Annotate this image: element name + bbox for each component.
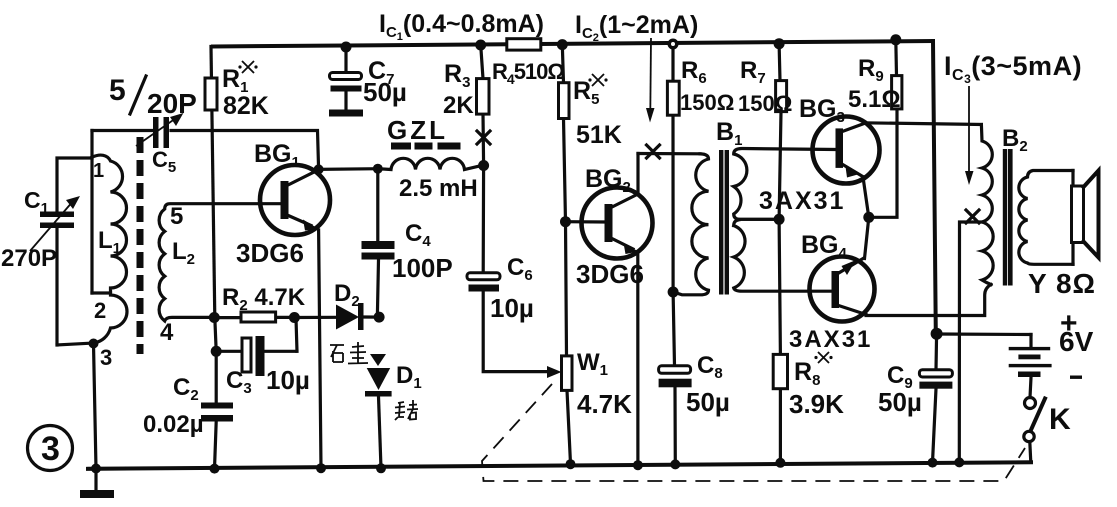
svg-text:0.02µ: 0.02µ [143,411,204,438]
resistor R4 [507,39,541,50]
dashed mechanical link W1-K [482,384,1025,481]
svg-text:10µ: 10µ [266,365,310,395]
svg-text:50µ: 50µ [363,77,407,107]
svg-text:3AX31: 3AX31 [759,187,845,215]
svg-text:20P: 20P [147,88,197,119]
switch K [1025,398,1036,409]
resistor R3 [481,45,484,165]
node R8 rail [775,458,785,468]
node R6 rail (ring) [668,39,679,50]
node BG1 emitter at rail [316,463,326,473]
capacitor C3 [216,319,297,352]
label marker 3 [28,426,73,471]
svg-text:3: 3 [41,430,60,468]
svg-text:1: 1 [93,160,104,182]
test point x on collector wire [647,145,660,158]
inductor L2 [159,204,281,321]
resistor R7 [779,44,781,220]
transistor BG2 [582,188,653,259]
adjust mark R8 [814,352,832,363]
wire C5 feedback line [92,131,319,170]
svg-text:K: K [1049,403,1071,436]
node C2 at rail [210,464,220,474]
current arrow IC3 [968,86,970,175]
svg-text:5.1Ω: 5.1Ω [848,86,901,113]
wire BG3 emitter down [863,177,869,217]
transformer B2 primary [981,125,993,285]
node BG2 emitter rail [633,460,643,470]
wire emitter node to R9 [869,109,897,217]
diode D1 [370,354,386,366]
svg-text:3AX31: 3AX31 [789,326,872,353]
wire tank to ground [94,344,97,469]
node R3 rail [475,40,486,51]
svg-text:150Ω: 150Ω [680,90,734,115]
wire battery feed [937,332,1031,336]
ground [94,469,97,492]
capacitor C2 [215,318,217,469]
resistor R6 [671,44,674,292]
svg-text:5: 5 [109,74,126,107]
wire left tank vertical [90,131,93,294]
node C8 rail [670,459,680,469]
node C7 rail [341,42,352,53]
node BG1 collector [314,164,324,174]
resistor R5 [562,45,565,222]
wire top supply rail [213,41,933,47]
node B1 primary bottom [668,287,679,298]
wiper arrow into W1 [547,366,562,378]
node C3 left [211,346,222,357]
adjust mark R5 [588,74,607,86]
transistor BG3 [813,117,880,184]
label silicon (hand-drawn) [330,342,368,364]
resistor R9 [894,40,898,76]
svg-text:3DG6: 3DG6 [236,238,304,268]
label germanium (hand-drawn) [395,400,418,420]
battery 6V [1030,335,1031,398]
svg-text:50µ: 50µ [878,387,922,417]
node R2 right [289,312,300,323]
wire BG4 collector to B2 [866,285,991,316]
node W1 at rail [566,459,576,469]
choke GZL [378,158,484,169]
node R7 rail [774,38,785,49]
node B2 tap rail [954,457,964,467]
node emitters join [863,212,874,223]
node B1 center tap [774,214,785,225]
svg-text:50µ: 50µ [686,387,730,417]
capacitor C7 [344,47,347,110]
capacitor C5 trimmer [153,117,159,148]
node BG2 base [560,216,571,227]
svg-text:82K: 82K [223,92,269,120]
svg-text:100P: 100P [392,253,453,283]
svg-text:Y 8Ω: Y 8Ω [1028,268,1096,299]
potentiometer W1 [566,222,571,464]
svg-text:3: 3 [100,345,112,370]
capacitor C1 [57,158,94,345]
inductor L1 [92,155,127,342]
svg-text:150Ω: 150Ω [738,91,792,116]
transformer B1 core [719,150,723,295]
capacitor C8 [673,292,675,464]
resistor R1 [211,47,215,318]
capacitor C6 [483,166,550,372]
transformer B2 core [1003,149,1007,286]
wire collector node to C4 node [319,167,378,171]
diode D2 [336,305,359,330]
node C4 top [373,164,383,174]
svg-text:3.9K: 3.9K [789,389,844,419]
current arrow IC2 [649,38,652,112]
capacitor C4 [377,169,378,315]
node D2 cathode [374,312,385,323]
node GZL/R3/C6 [478,160,489,171]
svg-text:R4510Ω: R4510Ω [492,59,564,87]
node C9 rail [928,458,938,468]
core L1/L2 dashed [137,137,144,354]
wire bottom ground rail [88,462,1031,469]
svg-text:10µ: 10µ [490,293,534,323]
test point x on R3 line [477,131,490,144]
svg-text:2.5 mH: 2.5 mH [399,175,478,202]
wire BG2 collector to B1 [638,152,700,156]
svg-text:51K: 51K [576,121,622,149]
svg-text:3DG6: 3DG6 [576,259,644,289]
transformer B2 secondary [1019,171,1073,265]
wire BG2 emitter to ground [636,252,639,465]
wire B2 center tap [959,222,982,462]
wire L1 pin2 tap [92,291,111,294]
svg-text:4: 4 [160,319,174,346]
transformer B1 secondary upper [734,149,836,220]
wire BG3 collector to B2 [864,123,981,125]
wire R2 node to D2 [294,316,336,319]
wire R1 node to R2 (pin4 node) handled above; node pin4 [209,312,220,323]
node battery feed [931,328,943,340]
transistor BG4 [810,257,875,322]
speaker Y [1071,171,1074,265]
node ground-rail junction [91,464,101,474]
svg-text:2: 2 [94,298,106,323]
svg-text:5: 5 [170,203,183,230]
wire base node to BG2 [566,220,605,224]
test point x on B2 tap [966,210,979,223]
transformer B1 secondary lower [734,219,832,291]
node R4 right / R5 top [557,39,568,50]
adjust mark R1 [238,61,257,73]
transformer B1 primary [673,154,708,295]
node L1 bottom [89,339,99,349]
svg-text:R2 4.7K: R2 4.7K [222,284,306,314]
svg-text:GZL: GZL [387,115,448,145]
resistor R2 [215,316,295,319]
resistor R8 [779,219,780,462]
capacitor C9 [933,334,937,463]
svg-text:270P: 270P [1,245,57,272]
transistor BG1 [260,165,330,235]
svg-text:4.7K: 4.7K [577,389,632,419]
svg-text:6V: 6V [1059,326,1094,357]
wire BG1 emitter to ground [319,230,321,468]
wire right vertical from rail corner down to battery node [933,41,936,334]
node R9 rail [890,34,901,45]
wire BG4 emitter up to node [865,217,869,258]
